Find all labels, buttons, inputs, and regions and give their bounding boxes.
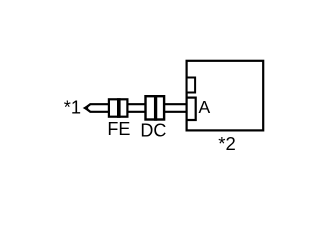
wire <box>85 104 187 112</box>
svg-text:*2: *2 <box>218 133 236 154</box>
svg-text:FE: FE <box>107 119 130 139</box>
svg-text:DC: DC <box>140 121 166 141</box>
wire arrowhead to *1 <box>83 105 89 111</box>
connector FE <box>109 98 128 118</box>
component box *2 <box>187 61 264 131</box>
connector A on box edge <box>187 98 196 120</box>
connector DC <box>146 95 165 121</box>
pin block (upper) on box edge <box>187 78 196 93</box>
svg-text:*1: *1 <box>64 97 81 118</box>
svg-text:A: A <box>199 97 211 117</box>
